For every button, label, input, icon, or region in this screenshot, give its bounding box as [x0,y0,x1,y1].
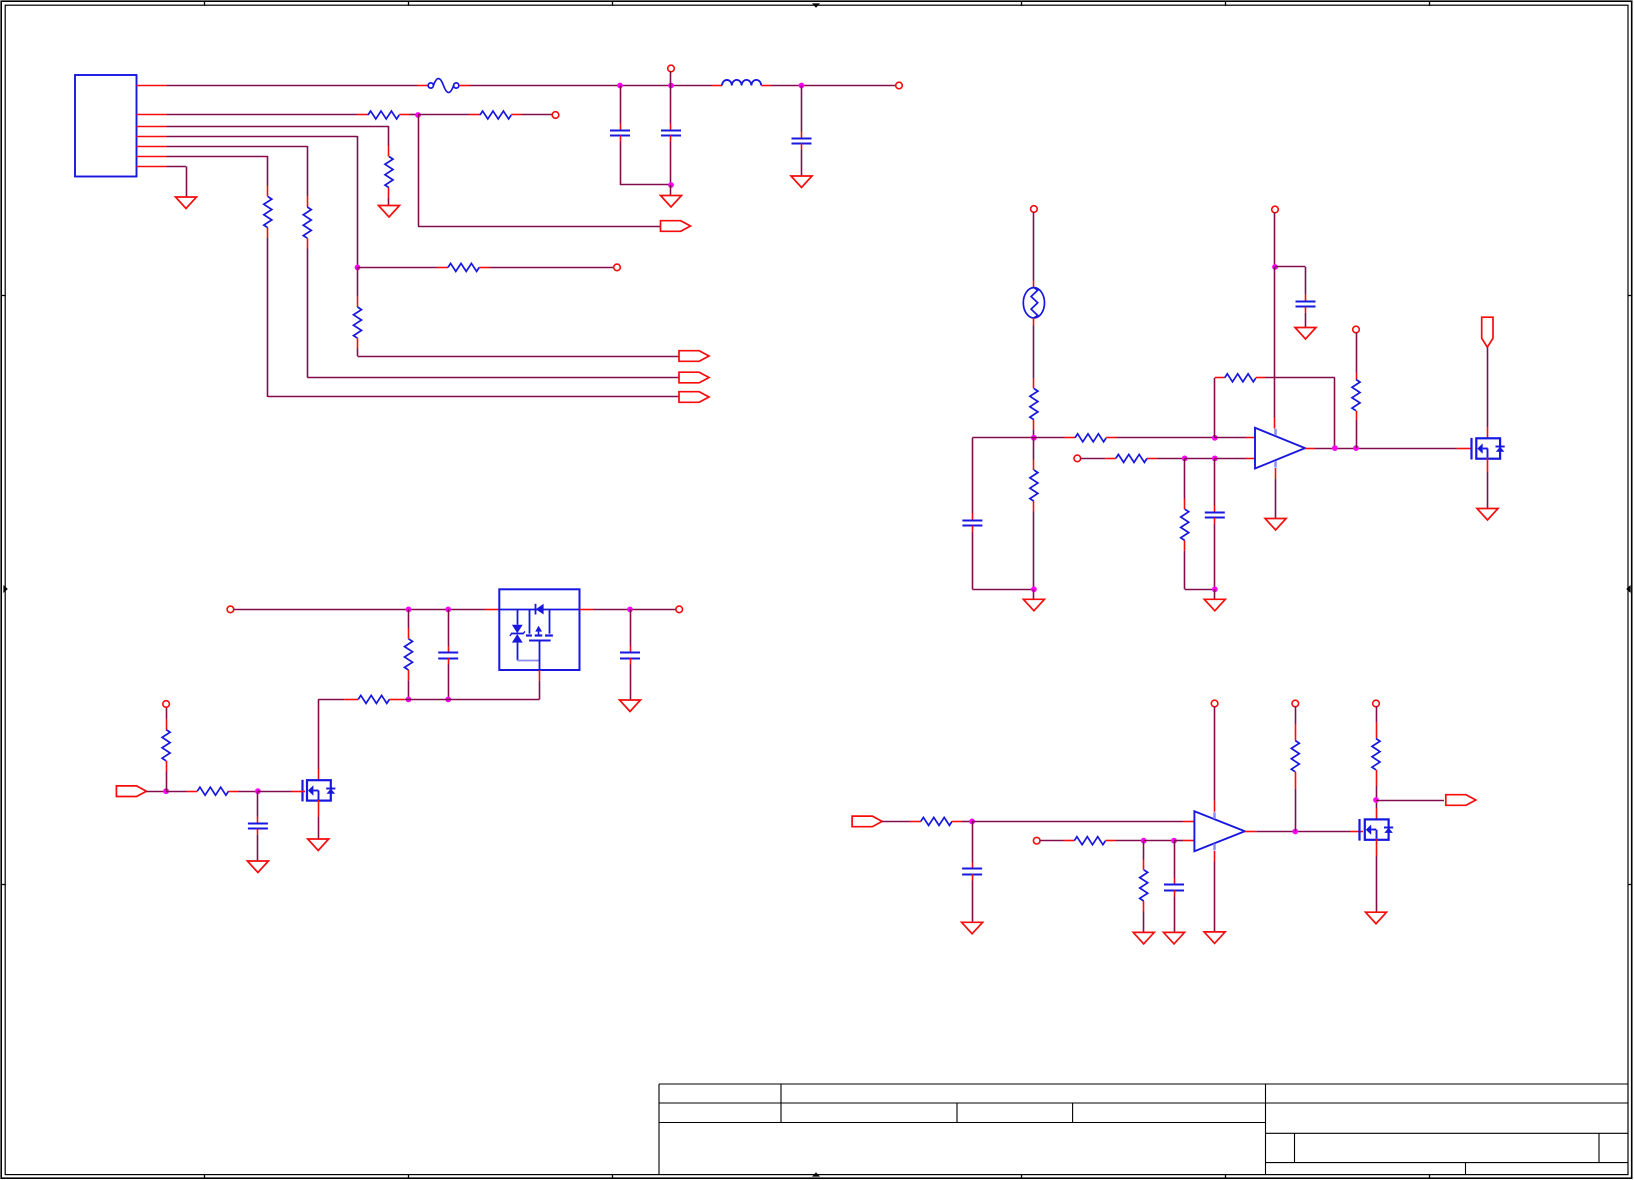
resistor R10 [1065,437,1076,439]
wire down to Q2 drain [318,699,320,769]
zone ticks top and bottom [204,1,206,6]
wire to opamp -in [1215,458,1246,460]
mosfet Q1 [1476,438,1500,458]
resistor R6 [307,196,309,207]
terminal circle V+ supply [1272,206,1279,213]
resistor R18 [166,791,186,793]
terminal stub above C2 [668,65,675,72]
ground G4 [176,197,197,209]
resistor R9 [1033,438,1035,460]
wire to R20 [1040,840,1064,842]
node junction U [1171,838,1177,844]
gate stub Q1 [1457,448,1471,450]
resistor R21 [1143,841,1145,860]
port P7 output [1446,795,1476,806]
capacitor C1 [620,86,622,124]
capacitor C3 [801,86,803,132]
terminal circle rail right [676,606,683,613]
port P2 [679,351,709,362]
opamp U3 V- to ground [1214,851,1216,862]
resistor R22 pullup [1295,707,1297,725]
wire to port P7 [1376,800,1444,802]
pin 7 stub [137,166,167,168]
power symbol VBATT [1482,317,1493,347]
pin 6 stub [137,156,167,158]
wire thermistor to R8 [1033,318,1035,326]
node junction B [355,265,361,271]
wire junction T to U [1144,840,1174,842]
wire bottom left loop [972,589,1034,591]
resistor R12 [1105,458,1116,460]
capacitor C8 [257,791,259,816]
ground G14 [1133,932,1154,944]
resistor R13 [1184,458,1186,498]
capacitor C7 [448,609,450,646]
wire to opamp -in [1174,840,1183,842]
U2 substrate arrow [535,626,542,632]
node junction Vs [1272,264,1278,270]
capacitor C9 [630,609,632,646]
Q2 source to ground [318,800,320,817]
wire pin7 to ground [167,166,187,168]
node junction A [415,112,421,118]
terminal circle thermistor top [1031,206,1038,213]
U2 right stub [580,609,594,611]
wire pin1 to fuse [167,85,418,87]
resistor R16 [344,699,358,701]
node junction D [1031,435,1037,441]
node junction at C3 [799,83,805,89]
wire R5 to port P2 [358,356,680,358]
gate feed wire [318,699,344,701]
wire pin3 [167,126,390,128]
terminal circle gate pullup [163,701,170,708]
terminal circle net4 [614,264,621,271]
connector J1 [75,75,137,177]
node junction E [1031,586,1037,592]
wire pin2 to R1 [167,114,358,116]
wire to opamp +in [972,821,1183,823]
node junction I [1212,586,1218,592]
wire to opamp +in [1215,437,1246,439]
ground G1 [670,185,672,196]
ground G5 [1033,589,1035,599]
mosfet Q3 [1365,819,1389,839]
pin 4 stub [137,136,167,138]
node junction O [406,697,412,703]
wire port to R19 [882,821,910,823]
node junction K [1353,445,1359,451]
terminal circle net2 [552,112,559,119]
resistor R5 [357,267,359,296]
op-amp U3 [1194,811,1244,851]
resistor R3 [388,146,390,157]
node junction L [406,607,412,613]
wire fuse to inductor [470,85,712,87]
resistor R7 [267,186,269,197]
capacitor C5 [1214,458,1216,505]
op-amp U1 [1255,428,1305,469]
wire up to U2 gate pin [539,681,541,700]
U2 fet verticals [529,610,531,634]
terminal circle opamp2 V+ [1211,700,1218,707]
terminal circle inv input [1074,455,1081,462]
center marker arrows [812,3,820,7]
pin 3 stub [137,126,167,128]
Q1 source to ground [1487,458,1489,472]
inductor L1 [712,85,722,87]
node junction H [1212,456,1218,462]
load switch U2 left stub [485,609,499,611]
wire pin6 [167,156,268,158]
opamp U1 V- to ground [1275,468,1277,479]
terminal circle VOUT [896,82,903,89]
wire junction B right [358,267,438,269]
wire junction A down to port [418,115,420,226]
zone ticks left and right [1,295,6,297]
node junction M [445,607,451,613]
U2 channel dashes [526,634,532,636]
title block frame [659,1083,1628,1085]
opamp U3 output [1245,831,1257,833]
capacitor C6 [1305,295,1307,301]
pin 5 stub [137,146,167,148]
resistor R11 feedback [1215,377,1225,379]
port P5 input [116,786,146,797]
fuse F1 [417,85,428,87]
supply wire to opamp2 [1214,707,1216,801]
load switch U2 box [499,589,579,670]
node junction P [445,697,451,703]
wire to C6 [1275,266,1306,268]
U2 gate plate [529,640,551,642]
resistor R20 [1064,840,1075,842]
terminal circle pullup [1353,326,1360,333]
wire inductor to output [771,85,896,87]
resistor R15 [408,609,410,628]
capacitor C10 [972,821,974,862]
wire to R12 [1080,458,1105,460]
wire junction D left [972,437,1034,439]
wire to thermistor [1033,212,1035,281]
wire to Q2 gate [258,791,292,793]
resistor R4 [437,267,448,269]
terminal circle drain supply [1373,700,1380,707]
port P6 input [852,816,882,827]
wire junction G to H [1185,458,1215,460]
port P1 [661,221,691,232]
pin 2 stub [137,114,167,116]
node junction at C1 [617,83,623,89]
wire pin4 [167,136,358,138]
U2 internal channel line [499,609,579,611]
mosfet Q2 [307,780,331,800]
port P4 [679,392,709,403]
node junction T [1141,838,1147,844]
wire pin5 [167,146,308,148]
feedback wire down [1334,378,1336,448]
port P3 [679,372,709,383]
resistor R1 [357,114,368,116]
wire cap bottoms [620,184,671,186]
gate stub Q3 [1351,831,1364,833]
node junction at C2 [668,83,674,89]
ground G9 [1477,509,1498,521]
node junction F [1212,435,1218,441]
capacitor C4 [972,438,974,514]
terminal circle rail left [227,606,234,613]
ground G8 [1265,519,1286,531]
capacitor C11 [1174,841,1176,878]
resistor R2 [418,114,469,116]
Q3 source to ground [1376,839,1378,856]
ground G3 [379,206,400,218]
node junction V [1292,829,1298,835]
node junction N [627,607,633,613]
resistor R17 pullup [166,772,168,792]
ground G15 [1164,932,1185,944]
rail wire [233,609,485,611]
node junction J [1332,445,1338,451]
rail wire right [593,609,676,611]
ground G11 [247,861,268,873]
ground G6 [1214,589,1216,599]
node junction Q [163,788,169,794]
capacitor C2 [670,86,672,124]
ground G17 [1366,912,1387,924]
ground G16 [1204,932,1225,944]
node junction G [1182,456,1188,462]
U2 gate pin down [539,641,541,670]
supply wire to opamp [1274,267,1276,418]
ground G12 [620,700,641,712]
ground G10 [308,839,329,851]
terminal circle pullup2 [1292,700,1299,707]
opamp U1 output [1305,448,1315,450]
wire R6 to port P3 [307,249,309,378]
feedback wire up [1214,378,1216,438]
resistor R19 [910,821,921,823]
ground G13 [962,922,983,934]
resistor R23 drain [1376,707,1378,723]
U2 zener branch [517,610,519,625]
terminal circle inv2 [1033,837,1040,844]
resistor R14 pullup [1356,333,1358,373]
node junction S [969,819,975,825]
wire power to Q1 drain [1487,347,1489,427]
wire R13 bottom [1185,589,1215,591]
wire R7 to port P4 [267,238,269,397]
wire junction D to R10 [1034,437,1065,439]
ground G7 [1295,328,1316,340]
resistor R8 [1033,378,1035,389]
ground G2 [791,176,812,188]
node junction W [1373,797,1379,803]
wire port to junction [146,791,166,793]
thermistor RT1 [1023,288,1044,318]
pin 1 stub [137,85,167,87]
supply wire down [1274,213,1276,268]
node junction R [255,788,261,794]
U2 body diode [535,604,537,615]
